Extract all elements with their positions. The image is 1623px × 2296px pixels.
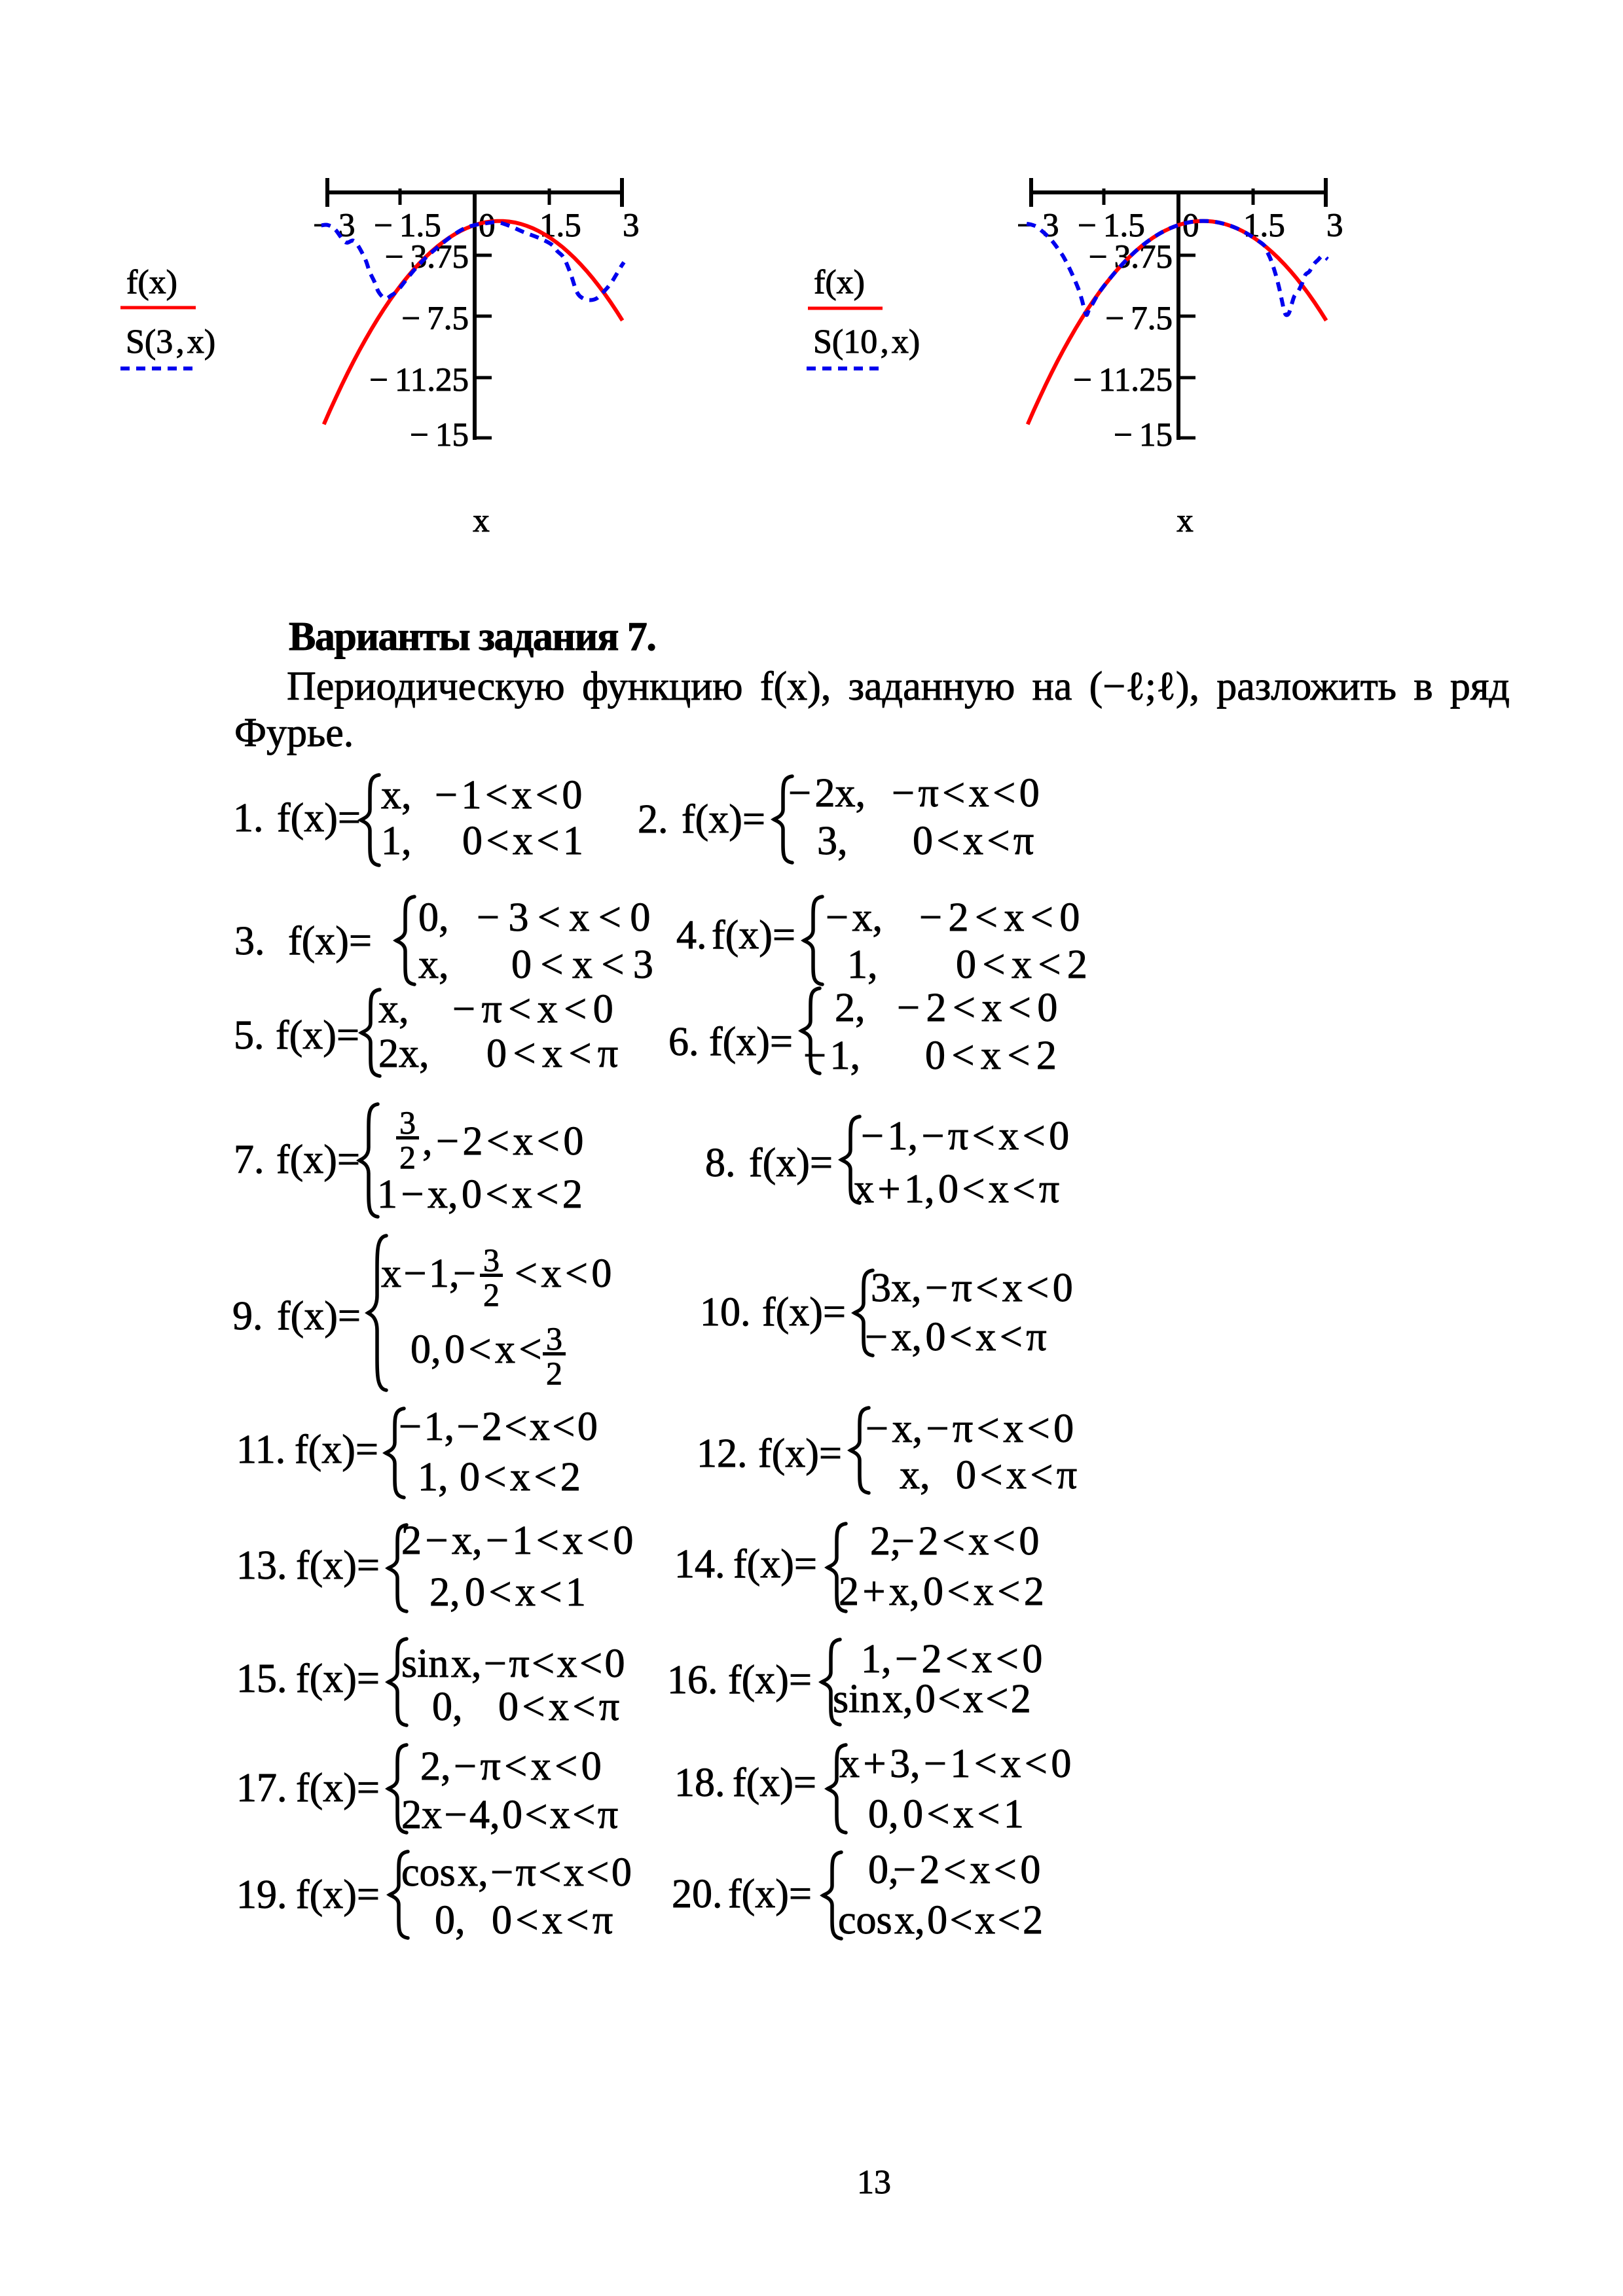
page number 13 xyxy=(857,2166,891,2200)
item 5: f(x)= x,-pi<x<0 ; 2x,0<x<pi xyxy=(234,1015,264,1056)
item 9: f(x)= x-1,-3/2<x<0 ; 0,0<x<3/2 xyxy=(232,1296,263,1336)
brace at x=548 y=1253 xyxy=(381,775,412,816)
x-axis end bar left xyxy=(325,178,329,207)
y-axis tick at y=577 xyxy=(1177,376,1195,380)
paragraph line 1 (justified) xyxy=(287,666,1510,707)
svg-text:0: 0 xyxy=(479,207,496,244)
brace at x=590 y=2570 xyxy=(401,1643,625,1684)
x-axis line xyxy=(1029,190,1328,194)
item 17: f(x)= 2,-pi<x<0 ; 2x-4,0<x<pi xyxy=(236,1768,287,1808)
item 8: f(x)= -1,-pi<x<0 ; x+1,0<x<pi xyxy=(705,1143,736,1183)
item 2: f(x)= -2x,-pi<x<0 ; 3,0<x<pi xyxy=(638,799,668,840)
y-axis tick at y=390 xyxy=(1177,254,1195,257)
item 13: f(x)= 2-x,-1<x<0 ; 2,0<x<1 xyxy=(236,1545,287,1586)
y-axis tick at y=483 xyxy=(1177,315,1195,318)
item 20: f(x)= 0,-2<x<0 ; cosx,0<x<2 xyxy=(672,1874,723,1914)
brace at x=1296 y=2216 xyxy=(866,1408,1074,1449)
item 4: f(x)= -x,-2<x<0 ; 1,0<x<2 xyxy=(676,915,707,956)
item 18: f(x)= x+3,-1<x<0 ; 0,0<x<1 xyxy=(674,1763,725,1803)
item 15: f(x)= sinx,-pi<x<0 ; 0,0<x<pi xyxy=(236,1659,287,1699)
x-axis tick -1.5 xyxy=(1103,188,1106,205)
brace at x=1225 y=1437 xyxy=(826,897,883,938)
brace at x=1261 y=2733 xyxy=(839,1744,1071,1784)
left legend red line xyxy=(120,306,196,310)
item 14: f(x)= 2,-2<x<0 ; 2+x,0<x<2 xyxy=(674,1544,725,1585)
brace at x=592 y=2895 xyxy=(401,1852,632,1893)
svg-text:1.5: 1.5 xyxy=(539,207,581,244)
y-axis tick at y=669 xyxy=(473,437,492,440)
x-axis end bar left xyxy=(1029,178,1033,207)
brace at x=586 y=2220 xyxy=(399,1407,598,1447)
brace at x=1179 y=1252 xyxy=(788,773,866,814)
svg-text:f(x): f(x) xyxy=(126,264,177,301)
item 9 fraction 3/2 upper xyxy=(480,1244,503,1311)
svg-text:1.5: 1.5 xyxy=(1243,207,1285,244)
item 16: f(x)= 1,-2<x<0 ; sinx,0<x<2 xyxy=(667,1660,718,1700)
svg-text:S(3 , x): S(3 , x) xyxy=(126,323,215,361)
svg-text:− 15: − 15 xyxy=(1114,417,1173,454)
left plot: red curve f(x) xyxy=(324,221,623,425)
x-axis tick +1.5 xyxy=(1252,188,1255,205)
piecewise curly braces xyxy=(361,775,379,865)
item 12: f(x)= -x,-pi<x<0 ; x,0<x<pi xyxy=(697,1433,748,1474)
item 1: f(x)= x,-1<x<0 ; 1,0<x<1 xyxy=(233,798,264,838)
svg-text:x: x xyxy=(1176,503,1194,539)
y-axis tick at y=483 xyxy=(473,315,492,318)
brace at x=1252 y=2570 xyxy=(861,1639,1042,1679)
x-axis tick -1.5 xyxy=(399,188,402,205)
item 9 fraction 3/2 lower xyxy=(543,1322,566,1390)
svg-text:− 7.5: − 7.5 xyxy=(401,300,469,337)
item 6: f(x)= 2,-2<x<0 ; -1,0<x<2 xyxy=(668,1022,699,1062)
x-axis end bar right xyxy=(620,178,624,207)
brace at x=602 y=1437 xyxy=(418,897,449,938)
y-axis tick at y=577 xyxy=(473,376,492,380)
brace at x=1221 y=1575 xyxy=(835,988,866,1028)
brace at x=1302 y=2006 xyxy=(871,1268,1073,1308)
svg-text:− 11.25: − 11.25 xyxy=(1073,362,1173,399)
x-axis end bar right xyxy=(1324,178,1328,207)
y-axis tick at y=390 xyxy=(473,254,492,257)
svg-text:− 7.5: − 7.5 xyxy=(1105,300,1173,337)
item 11: f(x)= -1,-2<x<0 ; 1,0<x<2 xyxy=(236,1429,285,1470)
brace at x=1282 y=1772 xyxy=(861,1116,1069,1157)
item 7: f(x)= 3/2,-2<x<0 ; 1-x,0<x<2 xyxy=(234,1139,264,1180)
svg-text:S(10 , x): S(10 , x) xyxy=(813,323,920,361)
item 7 fraction 3/2 xyxy=(396,1106,419,1174)
left plot: blue dashed curve S(3,x) xyxy=(321,222,624,300)
svg-text:− 3: − 3 xyxy=(1017,207,1059,244)
svg-text:3: 3 xyxy=(623,207,640,244)
brace at x=549 y=1578 xyxy=(378,989,409,1030)
brace at x=559 y=2006 xyxy=(381,1253,459,1294)
brace at x=1261 y=2395 xyxy=(870,1521,901,1562)
heading: Варианты задания 7. xyxy=(289,617,655,657)
brace at x=590 y=2733 xyxy=(420,1746,451,1787)
item 3: f(x)= 0,-3<x<0 ; x,0<x<3 xyxy=(234,921,265,961)
svg-text:− 15: − 15 xyxy=(410,417,469,454)
svg-text:0: 0 xyxy=(1182,207,1199,244)
item 19: f(x)= cosx,-pi<x<0 ; 0,0<x<pi xyxy=(236,1874,287,1915)
right legend red line xyxy=(808,307,883,310)
left legend blue dashed line xyxy=(120,367,193,370)
right plot: blue dashed curve S(10,x) xyxy=(1027,221,1328,315)
svg-text:− 3: − 3 xyxy=(313,207,355,244)
paragraph line 2 xyxy=(234,713,354,753)
y-axis tick at y=669 xyxy=(1177,437,1195,440)
x-axis tick +1.5 xyxy=(548,188,551,205)
right legend blue dashed line xyxy=(807,367,879,370)
svg-text:x: x xyxy=(473,503,490,539)
y-axis line xyxy=(1176,190,1180,440)
brace at x=1254 y=2896 xyxy=(868,1850,899,1890)
right plot: red curve f(x) xyxy=(1028,221,1326,425)
x-axis line xyxy=(325,190,624,194)
svg-text:f(x): f(x) xyxy=(814,264,865,301)
svg-text:− 11.25: − 11.25 xyxy=(369,362,469,399)
brace at x=590 y=2396 xyxy=(401,1520,633,1561)
y-axis line xyxy=(473,190,477,440)
svg-text:3: 3 xyxy=(1326,207,1343,244)
item 10: f(x)= 3x,-pi<x<0 ; -x,0<x<pi xyxy=(700,1292,751,1333)
